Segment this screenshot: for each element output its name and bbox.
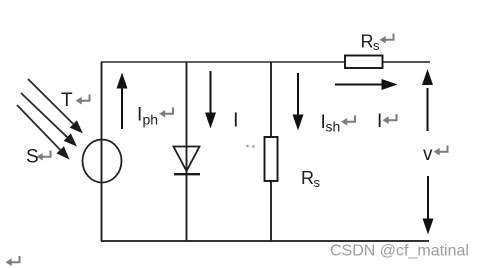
svg-text:ph: ph (143, 112, 159, 128)
svg-text:R: R (301, 168, 314, 188)
resistor Rsh (shunt resistor) (265, 137, 278, 181)
arrow Iph (photocurrent, up) (117, 73, 128, 130)
wire top bus (node A) (101, 61, 345, 63)
diode D1 (174, 147, 201, 175)
return mark after v (434, 146, 448, 156)
svg-text:s: s (314, 175, 321, 190)
arrow I diode current (down) (205, 71, 216, 129)
light arrow 3 (irradiance) (17, 105, 70, 160)
return mark after I (383, 114, 397, 124)
svg-text:I: I (137, 105, 142, 126)
svg-text:T: T (61, 90, 73, 111)
svg-text:v: v (423, 144, 433, 165)
svg-text:CSDN @cf_matinal: CSDN @cf_matinal (330, 243, 469, 260)
return mark after Iph (159, 108, 173, 118)
arrow Ish (shunt current, down) (293, 73, 304, 131)
arrow I output current (right) (335, 79, 398, 90)
svg-text:S: S (26, 147, 39, 168)
wire diode branch (186, 62, 188, 241)
stray dots artifact (246, 145, 255, 148)
label Rs (series resistor) (361, 32, 381, 54)
arrow V- terminal (down) (423, 176, 434, 235)
return mark after Ish (341, 116, 355, 126)
return mark after S (37, 151, 51, 161)
svg-text:I: I (377, 111, 382, 132)
return mark bottom-left (6, 256, 20, 266)
label Iph (137, 105, 158, 128)
svg-text:R: R (361, 32, 374, 52)
svg-text:I: I (233, 110, 239, 132)
label Rs (shunt resistor value) (301, 168, 321, 190)
arrow V+ terminal (up) (422, 69, 433, 131)
wire left branch (101, 62, 103, 241)
svg-text:s: s (373, 38, 380, 53)
svg-text:sh: sh (326, 119, 341, 135)
return mark after Rs (380, 34, 394, 44)
wire shunt branch (270, 62, 272, 241)
wire bottom bus (node B) (101, 240, 429, 242)
light arrow 2 (irradiance) (21, 93, 77, 147)
label Ish (321, 112, 341, 135)
light arrow 1 (irradiance) (28, 79, 83, 133)
return mark after T (76, 95, 90, 105)
resistor Rs (series resistor) (345, 56, 383, 69)
wire top right segment (383, 61, 431, 63)
current source Iph (photocurrent source) (83, 140, 122, 183)
